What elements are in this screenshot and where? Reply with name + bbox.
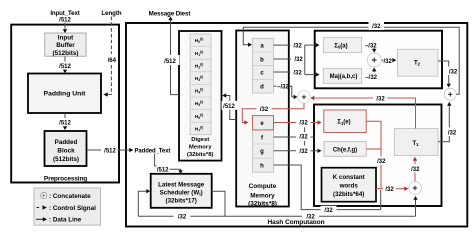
wire junction to Maj <box>305 74 316 76</box>
svg-text:/512: /512 <box>223 104 235 110</box>
svg-text:/32: /32 <box>385 187 394 193</box>
wire register a to sigma0 <box>274 44 292 46</box>
wire adder A2 to register e (red) <box>242 103 304 122</box>
svg-text:T2: T2 <box>414 61 421 67</box>
svg-text:/512: /512 <box>59 64 71 70</box>
svg-text:/32: /32 <box>294 57 303 63</box>
svg-text:/64: /64 <box>108 58 117 64</box>
svg-text:Preprocessing: Preprocessing <box>44 176 87 183</box>
wire register g to Ch <box>274 150 297 152</box>
svg-text:Scheduler (Wt): Scheduler (Wt) <box>160 190 203 197</box>
sigma1 unit (red) <box>324 110 366 133</box>
svg-text:Digest: Digest <box>191 137 209 143</box>
svg-text:words: words <box>339 183 359 190</box>
junction dash f-g <box>304 141 306 146</box>
svg-text:Length: Length <box>101 10 122 17</box>
svg-text:Σ1(e): Σ1(e) <box>337 120 350 126</box>
wire padded block to hash computation <box>87 149 101 151</box>
svg-text:/32: /32 <box>411 167 420 173</box>
svg-text:K constant: K constant <box>333 174 365 181</box>
digest cell stack <box>190 34 211 135</box>
svg-text:/512: /512 <box>164 59 176 65</box>
svg-text:Maj(a,b,c): Maj(a,b,c) <box>330 74 358 80</box>
control wire Length (dashed) into padding unit <box>110 17 112 55</box>
input buffer U-IB <box>45 33 86 56</box>
wire Wt output loop (right side down to bottom rail) <box>212 191 225 216</box>
legend control signal symbol <box>37 207 41 209</box>
wire register e to sigma1 (red) <box>274 122 297 124</box>
svg-text:Padding Unit: Padding Unit <box>44 91 87 98</box>
wire register c to junction <box>274 71 292 73</box>
wire sigma0 to adder A1 <box>373 48 375 49</box>
T1 register <box>395 129 439 156</box>
svg-text:b: b <box>260 57 264 63</box>
svg-text:: Data Line: : Data Line <box>49 217 82 224</box>
wire T1 to adder A3 <box>438 106 449 142</box>
wire buffer to padding unit <box>64 56 66 61</box>
svg-text:/32: /32 <box>448 130 457 136</box>
junction dash e-f <box>304 127 306 132</box>
svg-text:/32: /32 <box>377 159 386 165</box>
wire Input_Text into Input Buffer <box>64 23 66 30</box>
compute memory box U-CM <box>236 31 289 207</box>
wire register b to junction <box>274 58 292 60</box>
svg-text:Memory: Memory <box>189 144 212 150</box>
round block 1 box <box>315 31 442 89</box>
svg-text:Buffer: Buffer <box>56 42 75 49</box>
svg-text:Input_Text: Input_Text <box>50 10 79 17</box>
svg-text:T1: T1 <box>412 141 419 147</box>
svg-text:(512bits): (512bits) <box>53 156 79 163</box>
svg-text:/32: /32 <box>299 135 308 141</box>
bus width /32 (sigma1/Ch out) <box>374 156 388 164</box>
svg-text:(32bits*8): (32bits*8) <box>248 201 277 208</box>
svg-text:h: h <box>260 163 264 169</box>
legend box <box>34 188 101 225</box>
svg-text:Ch(e,f,g): Ch(e,f,g) <box>333 148 357 154</box>
svg-text:/32: /32 <box>293 43 302 49</box>
svg-text:/512: /512 <box>157 167 169 173</box>
Ch unit <box>324 142 366 157</box>
bus width /32 (new a) <box>369 22 385 30</box>
wire Maj to adder A1 <box>373 71 375 72</box>
preprocessing outer box <box>11 25 119 183</box>
svg-text:/32: /32 <box>293 70 302 76</box>
wire Wt up into adder A4 (over block) <box>415 200 417 217</box>
bus width /512 (digest out) <box>162 55 180 65</box>
svg-text:Block: Block <box>57 147 75 154</box>
wire h into adder junction <box>380 190 382 210</box>
K constant words memory <box>322 168 377 202</box>
svg-text:–/32: –/32 <box>365 43 377 49</box>
svg-text:/32: /32 <box>449 69 458 75</box>
wire register f to round2 <box>274 136 297 138</box>
svg-text:/32: /32 <box>299 121 308 127</box>
adder A4 (h+S1+Ch+K+W) <box>409 182 422 195</box>
wire T1 to adder A2 (red) <box>314 98 416 129</box>
wire padded text into hash box <box>118 149 130 151</box>
svg-text:(32bits*64): (32bits*64) <box>333 191 364 198</box>
bus width /32 (T2 out) <box>446 67 461 76</box>
svg-text:/32: /32 <box>372 24 381 30</box>
sigma0 unit <box>323 37 361 52</box>
wire Wt feedback into scheduler left <box>138 191 146 216</box>
svg-text:: Control Signal: : Control Signal <box>49 205 96 212</box>
bus width /32 (Wt feedback) <box>174 212 191 221</box>
legend data line symbol <box>36 218 43 220</box>
svg-text:Input: Input <box>58 35 74 42</box>
padding unit U-PAD <box>28 74 101 114</box>
adder A1 (sigma0+Maj) <box>367 53 381 67</box>
svg-text:Compute: Compute <box>249 183 277 190</box>
wire adder A1 to T2 <box>381 59 383 61</box>
svg-text:(32bits*8): (32bits*8) <box>187 152 214 158</box>
register stack a-d <box>253 38 274 93</box>
wire padding unit to padded block <box>64 113 66 118</box>
latest message scheduler U-MS <box>151 174 212 208</box>
svg-text:–/32: –/32 <box>277 85 289 91</box>
bus width /32 (h path) <box>321 206 337 214</box>
wire T2 to adder A3 <box>438 61 449 84</box>
svg-text:Memory: Memory <box>250 192 275 199</box>
svg-text:: Concatenate: : Concatenate <box>49 193 91 200</box>
register e (highlighted) <box>253 116 274 130</box>
wire register h to adder junction (under block) <box>274 165 381 210</box>
svg-text:Latest Message: Latest Message <box>158 182 205 189</box>
svg-text:/32: /32 <box>306 215 315 221</box>
svg-text:d: d <box>260 85 264 91</box>
svg-text:Padded_Text: Padded_Text <box>135 148 171 154</box>
svg-text:/32: /32 <box>299 149 308 155</box>
svg-text:/512: /512 <box>104 148 116 154</box>
wire Ch out (red) <box>366 148 381 150</box>
T2 register <box>398 49 438 76</box>
svg-text:–/32: –/32 <box>365 75 377 81</box>
svg-text:g: g <box>260 149 264 155</box>
wire Wt bottom rail <box>138 215 415 217</box>
svg-text:(512bits): (512bits) <box>53 50 79 57</box>
svg-text:/32: /32 <box>376 96 385 102</box>
legend concatenate symbol <box>41 192 47 198</box>
bus width /32 (Wt to adder) <box>302 212 319 221</box>
digest memory box U-DM <box>179 31 222 161</box>
svg-text:Padded: Padded <box>55 139 78 146</box>
svg-text:Σ0(a): Σ0(a) <box>334 43 347 49</box>
wire compute memory to digest memory (final add) <box>226 96 236 120</box>
wire sigma1 out (red) <box>366 121 381 188</box>
svg-text:/32: /32 <box>260 107 269 113</box>
Maj unit <box>323 68 361 83</box>
svg-text:/32: /32 <box>178 215 187 221</box>
wire adder A3 feedback to register a <box>243 27 459 94</box>
bus width /32 (new e) <box>257 105 272 113</box>
svg-text:/512: /512 <box>59 120 71 126</box>
register stack e-h <box>253 116 274 173</box>
wire Padded_Text down to scheduler <box>155 154 157 166</box>
svg-text:/32: /32 <box>384 59 393 65</box>
padded block U-PB <box>45 131 87 166</box>
wire adder A4 up to T1 (red) <box>414 161 416 182</box>
bus width /512 (state writeback) <box>222 101 238 110</box>
svg-text:(32bits*17): (32bits*17) <box>166 198 197 205</box>
svg-text:Message Diest: Message Diest <box>149 11 191 18</box>
wire register d to adder A2 <box>274 85 277 87</box>
adder A3 (T1+T2) <box>444 88 456 100</box>
wire digest memory output up to Message Diest <box>171 20 180 95</box>
svg-text:/32: /32 <box>324 208 333 214</box>
bus width /32 (T1 to A3) <box>445 128 460 137</box>
round block 2 box <box>314 105 442 207</box>
adder A2 (d+T1) <box>298 91 311 104</box>
wire K+sigma+h to adder A4 (red) <box>376 188 383 190</box>
hash computation outer box <box>126 23 467 227</box>
junction rail a/b/c <box>304 45 306 75</box>
bus width /32 (T1 to A2) <box>373 94 388 103</box>
bus width /32 (A4 out) <box>408 164 423 173</box>
